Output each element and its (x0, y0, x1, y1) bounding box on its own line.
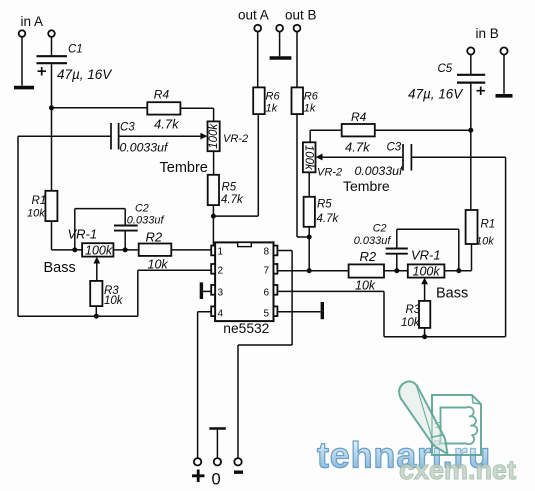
svg-text:1k: 1k (266, 103, 278, 115)
label C1 (68, 44, 83, 56)
label VR-2 (223, 133, 248, 145)
value 47u 16V (57, 67, 113, 82)
node junction A1 (49, 105, 54, 110)
pin 2 (211, 264, 223, 277)
node junction A4 (123, 247, 128, 252)
label VR-1 (411, 247, 441, 262)
value 4.7k (345, 140, 371, 155)
value 0.033uf (127, 214, 165, 226)
label VR-2 (317, 167, 342, 179)
terminal out gnd (276, 25, 283, 32)
capacitor C5 (457, 75, 485, 95)
svg-text:4.7k: 4.7k (345, 140, 371, 155)
value 1k (304, 103, 316, 115)
terminal out A (254, 25, 261, 32)
ground (14, 86, 34, 90)
wire left frame (18, 136, 138, 316)
label zero (212, 471, 221, 489)
svg-text:C2: C2 (135, 202, 149, 214)
svg-text:100k: 100k (208, 123, 220, 149)
svg-text:in B: in B (476, 26, 499, 41)
svg-text:R5: R5 (317, 199, 332, 211)
wire (51, 37, 53, 55)
value 10k (476, 236, 494, 248)
ground (496, 94, 513, 98)
potentiometer VR-2 (left) (208, 121, 220, 151)
wire bracket C2 left (75, 209, 125, 250)
resistor R3 (right) (419, 301, 430, 328)
label R6 (266, 91, 281, 103)
terminal in A signal pin (48, 30, 55, 37)
svg-text:47µ, 16V: 47µ, 16V (57, 67, 113, 82)
wire (213, 151, 215, 175)
wire (503, 55, 505, 94)
svg-text:1k: 1k (304, 103, 316, 115)
resistor R1 (right) (466, 210, 478, 244)
label R2 (146, 230, 163, 245)
wiper arrow VR-1 right (421, 278, 428, 301)
value 10k (27, 208, 45, 220)
svg-text:ne5532: ne5532 (223, 321, 269, 336)
svg-text:6: 6 (264, 288, 270, 299)
svg-text:Bass: Bass (44, 260, 76, 276)
svg-text:R6: R6 (266, 91, 281, 103)
pin 5 reference stub (278, 302, 323, 319)
svg-text:0.033uf: 0.033uf (127, 214, 165, 226)
node in B label (476, 26, 499, 41)
resistor R3 (left) (90, 281, 102, 306)
potentiometer VR-1 (right) (408, 264, 445, 278)
node junction B4 (394, 268, 399, 273)
svg-text:5: 5 (264, 309, 270, 320)
ground (270, 56, 292, 60)
terminal in B signal pin (467, 47, 474, 54)
wire (21, 37, 23, 86)
resistor R5 (left) (208, 175, 219, 205)
wire (411, 156, 505, 158)
wire pin 7 (278, 270, 349, 272)
label ne5532 (223, 321, 269, 336)
svg-text:C2: C2 (373, 223, 387, 235)
svg-text:R5: R5 (222, 182, 237, 194)
label Tembre (343, 178, 390, 194)
pin 3 (211, 285, 223, 299)
wire (375, 129, 471, 131)
node junction B1 (468, 128, 473, 133)
pin 6 (264, 285, 278, 299)
value 0.0033uf (355, 164, 404, 178)
wire pin 8 to minus (238, 251, 292, 459)
capacitor C2 (right) (386, 249, 408, 254)
svg-text:C1: C1 (68, 44, 83, 56)
IC U1 ne5532 (215, 242, 273, 321)
wire (213, 114, 258, 216)
wire (95, 306, 97, 316)
wire pin 6 feedback (278, 291, 506, 336)
label Bass (436, 286, 468, 302)
value 10k (148, 257, 169, 271)
node out B label (285, 8, 317, 23)
svg-text:7: 7 (264, 266, 270, 277)
svg-text:out B: out B (285, 8, 317, 23)
label C2 (135, 202, 149, 214)
svg-text:R4: R4 (154, 88, 170, 102)
svg-text:10k: 10k (401, 317, 421, 329)
value 4.7k (221, 194, 244, 206)
resistor R2 (right) (349, 264, 384, 277)
value 10k (355, 278, 376, 292)
wire (52, 107, 148, 109)
label R4 (154, 88, 170, 102)
potentiometer VR-1 (left) (82, 243, 113, 257)
svg-text:4: 4 (218, 309, 224, 320)
node junction A5 (94, 314, 99, 319)
label VR-1 (68, 226, 98, 241)
wire (212, 205, 214, 216)
svg-text:out A: out A (238, 8, 269, 23)
value 10k (401, 317, 421, 329)
capacitor C3 (right) (403, 144, 411, 171)
terminal in A ground pin (19, 30, 26, 37)
capacitor C1 (37, 56, 68, 75)
watermark text cxem.net (399, 455, 516, 485)
value 4.7k (154, 116, 180, 131)
wire (52, 221, 83, 250)
pin 5 (264, 306, 278, 319)
label C5 (438, 63, 453, 75)
pin 8 (264, 246, 278, 258)
wiper arrow VR-1 left (93, 257, 100, 281)
svg-text:100k: 100k (85, 243, 113, 257)
node out A label (238, 8, 269, 23)
value 4.7k (317, 213, 340, 225)
svg-text:4.7k: 4.7k (221, 194, 244, 206)
label R1 (481, 219, 496, 231)
wire (258, 32, 297, 88)
wire (18, 135, 111, 137)
label R3 (406, 304, 421, 316)
svg-text:C3: C3 (387, 142, 402, 154)
svg-text:Tembre: Tembre (160, 160, 208, 176)
wiper arrow VR-2 right (316, 154, 403, 161)
resistor R6 (B) (292, 87, 304, 114)
svg-text:R1: R1 (32, 195, 47, 207)
label C2 (373, 223, 387, 235)
svg-text:Tembre: Tembre (343, 178, 390, 194)
svg-text:10k: 10k (104, 295, 124, 307)
svg-text:C3: C3 (120, 122, 135, 134)
watermark icon stylus (399, 381, 447, 454)
svg-text:0.0033uf: 0.0033uf (355, 164, 404, 178)
value 47u 16V (408, 87, 464, 102)
resistor R5 (right) (304, 197, 315, 227)
capacitor C3 (left) (111, 123, 119, 150)
wire (308, 227, 310, 237)
svg-text:47µ, 16V: 47µ, 16V (408, 87, 464, 102)
svg-text:10k: 10k (148, 257, 169, 271)
label R6 (304, 91, 319, 103)
node junction A2 (211, 214, 216, 219)
node junction B5 (456, 268, 461, 273)
node junction B3 (307, 268, 312, 273)
svg-text:8: 8 (264, 247, 270, 258)
pin 3 reference stub (201, 282, 211, 299)
potentiometer VR-2 (right) (303, 142, 316, 172)
wire (212, 216, 214, 246)
wire pin2 feedback (138, 270, 211, 316)
terminal minus (234, 458, 241, 465)
svg-text:0: 0 (212, 471, 221, 489)
resistor R4 (right) (342, 124, 375, 136)
svg-text:VR-1: VR-1 (411, 247, 441, 262)
node in A label (21, 14, 44, 29)
svg-text:R1: R1 (481, 219, 496, 231)
svg-text:R2: R2 (146, 230, 163, 245)
svg-text:R2: R2 (360, 249, 377, 264)
label R5 (222, 182, 237, 194)
wire (308, 172, 310, 197)
svg-text:1: 1 (218, 247, 224, 258)
svg-text:R3: R3 (406, 304, 421, 316)
terminal in B ground pin (500, 47, 507, 54)
pin 1 (211, 246, 223, 258)
node junction A3 (72, 247, 77, 252)
svg-text:10k: 10k (476, 236, 494, 248)
wire pin 4 to plus (198, 312, 212, 459)
label C3 (387, 142, 402, 154)
wiper arrow VR-2 left (119, 133, 208, 140)
label R2 (360, 249, 377, 264)
terminal out B (294, 25, 301, 32)
resistor R4 (left) (147, 102, 180, 114)
wire (384, 270, 408, 272)
wire (470, 130, 472, 210)
resistor R6 (A) (253, 87, 265, 114)
svg-text:0.0033uf: 0.0033uf (120, 140, 169, 154)
label R1 (32, 195, 47, 207)
svg-text:100k: 100k (303, 145, 315, 171)
watermark icon notepad (432, 395, 481, 455)
value 0.033uf (354, 235, 392, 247)
wire (308, 237, 310, 271)
svg-text:Bass: Bass (436, 286, 468, 302)
svg-text:4.7k: 4.7k (317, 213, 340, 225)
wire bracket C2 right (397, 229, 459, 271)
watermark text tehnari.ru (317, 435, 491, 476)
svg-text:4.7k: 4.7k (154, 116, 180, 131)
wire (297, 114, 309, 237)
label C3 (120, 122, 135, 134)
terminal zero (214, 458, 221, 465)
label R4 (351, 110, 367, 124)
label plus (192, 470, 205, 483)
svg-text:3: 3 (218, 288, 224, 299)
svg-text:C5: C5 (438, 63, 453, 75)
svg-text:R6: R6 (304, 91, 319, 103)
wire (470, 55, 472, 74)
wire (471, 244, 473, 271)
wire (470, 84, 472, 131)
resistor R2 (left) (139, 244, 172, 256)
svg-text:0.033uf: 0.033uf (354, 235, 392, 247)
svg-text:in A: in A (21, 14, 44, 29)
label Tembre (160, 160, 208, 176)
wire right frame (505, 157, 507, 337)
svg-text:10k: 10k (355, 278, 376, 292)
resistor R1 (left) (45, 191, 57, 221)
svg-text:2: 2 (218, 266, 224, 277)
pin 4 (211, 306, 223, 319)
node junction B6 (422, 334, 427, 339)
terminal plus (194, 458, 201, 465)
svg-text:VR-1: VR-1 (68, 226, 98, 241)
wire (124, 232, 126, 250)
wire (180, 108, 214, 121)
wire (424, 328, 426, 337)
label R5 (317, 199, 332, 211)
label R3 (104, 285, 119, 297)
svg-text:cxem.net: cxem.net (399, 455, 516, 485)
label Bass (44, 260, 76, 276)
capacitor C2 (left) (114, 226, 138, 231)
pin 7 (264, 264, 278, 277)
wire (51, 64, 53, 108)
wire (396, 229, 398, 271)
wire 0 terminal (209, 429, 225, 459)
value 0.0033uf (120, 140, 169, 154)
wire (171, 249, 211, 251)
value 1k (266, 103, 278, 115)
wire (113, 249, 138, 251)
node junction B2 (307, 235, 312, 240)
svg-text:100k: 100k (413, 264, 441, 278)
svg-text:VR-2: VR-2 (317, 167, 342, 179)
svg-text:10k: 10k (27, 208, 45, 220)
svg-text:VR-2: VR-2 (223, 133, 248, 145)
wire (51, 108, 53, 191)
svg-text:R4: R4 (351, 110, 367, 124)
wire (310, 130, 342, 142)
wire (444, 270, 471, 272)
value 10k (104, 295, 124, 307)
label minus (234, 471, 243, 474)
